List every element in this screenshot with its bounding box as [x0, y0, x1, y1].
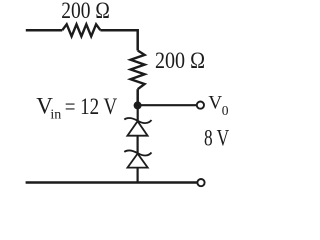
resistor R2 (vertical 200 ohm): [131, 51, 145, 90]
terminal bottom (open circle): [197, 179, 204, 186]
svg-text:200 Ω: 200 Ω: [61, 0, 110, 23]
svg-text:200 Ω: 200 Ω: [155, 48, 205, 73]
resistor R1 (horizontal 200 ohm): [62, 24, 100, 36]
zener D1 cathode bar (curved): [124, 118, 151, 123]
wire: bottom rail: [26, 181, 198, 184]
zener D2 triangle: [128, 154, 148, 168]
wire: node to output terminal: [141, 104, 197, 106]
wire: R2 bottom to node: [136, 89, 139, 105]
svg-text:8 V: 8 V: [204, 125, 229, 150]
svg-text:= 12 V: = 12 V: [65, 94, 118, 119]
node junction dot: [134, 101, 142, 109]
svg-text:in: in: [50, 107, 61, 122]
wire: top-left input lead: [26, 29, 63, 32]
zener D1 triangle: [127, 121, 147, 136]
wire: D2 to bottom rail: [137, 168, 139, 183]
svg-text:0: 0: [222, 103, 229, 118]
wire: D1 to D2: [137, 136, 139, 153]
zener D2 cathode bar (curved): [124, 150, 151, 155]
terminal V0 (open circle): [197, 102, 204, 109]
svg-text:V: V: [208, 93, 222, 114]
wire: node down to zener D1: [137, 105, 139, 120]
wire: top segment to corner and down to R2: [100, 30, 137, 50]
